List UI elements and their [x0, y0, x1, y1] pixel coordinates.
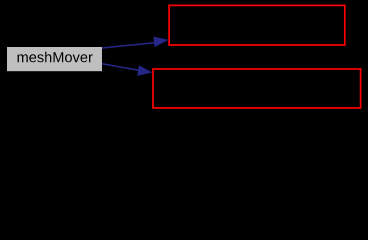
node (truncated, bottom)	[153, 69, 361, 108]
arrowhead edge to bottom node	[137, 65, 152, 76]
node meshMover	[7, 47, 102, 71]
label meshMover	[18, 52, 93, 63]
node (truncated, top)	[169, 5, 345, 45]
wire edge to top node	[102, 43, 155, 48]
arrowhead edge to top node	[153, 36, 168, 47]
wire edge to bottom node	[102, 64, 139, 71]
